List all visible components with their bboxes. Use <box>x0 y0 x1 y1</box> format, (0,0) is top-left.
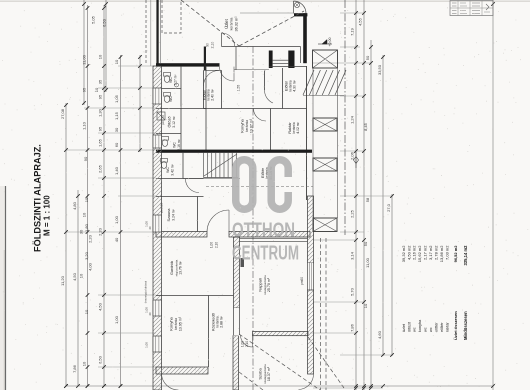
svg-text:1,00: 1,00 <box>114 315 119 324</box>
corridor wall <box>205 66 207 151</box>
svg-text:üzlet: üzlet <box>402 323 406 332</box>
svg-text:2,20: 2,20 <box>88 234 93 243</box>
dimension chain line right B <box>363 0 365 390</box>
hatched wall szauna-gardrob right <box>229 232 310 238</box>
svg-text:95: 95 <box>82 87 87 92</box>
svg-text:4,60: 4,60 <box>377 330 382 339</box>
uzlet left outer wall <box>156 0 158 64</box>
svg-text:3.12 m²: 3.12 m² <box>172 115 176 127</box>
terrace dashed lines <box>320 238 322 390</box>
sink 1 <box>175 83 179 87</box>
svg-text:konyha: konyha <box>418 319 422 332</box>
internal stair treads <box>203 153 205 178</box>
svg-text:6,50: 6,50 <box>98 355 103 364</box>
uzlet interior partition stub <box>235 47 237 71</box>
left page fold edge <box>5 186 7 390</box>
svg-text:1,10: 1,10 <box>82 121 87 130</box>
svg-text:előtér: előtér <box>435 322 439 332</box>
svg-text:1,05: 1,05 <box>114 94 119 103</box>
svg-text:1,00: 1,00 <box>114 215 119 224</box>
chimney shaft box B4 <box>313 218 337 232</box>
dimension chain line right C <box>370 40 372 388</box>
dimension chain line top H <box>105 0 107 92</box>
svg-text:27,08: 27,08 <box>60 108 65 119</box>
right wall bottom door arc <box>299 374 314 390</box>
svg-text:4,50: 4,50 <box>72 272 77 281</box>
uzlet right outer wall thick <box>303 13 307 63</box>
svg-text:10: 10 <box>114 59 119 64</box>
left outer wall hatched lower <box>153 66 162 390</box>
dashed centerline vertical <box>252 46 254 390</box>
svg-text:3.24 m²: 3.24 m² <box>172 208 176 220</box>
svg-text:40: 40 <box>148 312 152 316</box>
svg-text:2,20: 2,20 <box>98 227 103 236</box>
svg-text:1,00: 1,00 <box>145 307 149 313</box>
dimension chain line right A <box>355 0 357 390</box>
elotir430 top edge <box>269 66 307 68</box>
svg-text:50: 50 <box>363 241 368 246</box>
svg-text:25.70 m²: 25.70 m² <box>267 277 271 292</box>
konyha door arc <box>264 90 273 103</box>
svg-text:95: 95 <box>98 94 103 99</box>
elotir 430 wall <box>282 68 284 109</box>
svg-text:4,50 m2: 4,50 m2 <box>406 245 411 260</box>
svg-text:CENTRUM: CENTRUM <box>232 243 299 265</box>
svg-text:wc: wc <box>429 327 433 332</box>
svg-text:wc: wc <box>424 327 428 332</box>
svg-text:40: 40 <box>148 226 152 230</box>
svg-text:1,00: 1,00 <box>145 342 149 348</box>
hatched wall szauna-gardrob left <box>156 232 207 238</box>
survey marker diamond <box>354 157 359 164</box>
svg-text:WC: WC <box>169 96 173 102</box>
left wall window 3 <box>153 215 162 232</box>
dimension chain line top G <box>83 0 85 105</box>
svg-text:7,19: 7,19 <box>350 27 355 36</box>
svg-text:3.42 m²: 3.42 m² <box>171 163 175 175</box>
wc toilet 1 <box>164 76 169 83</box>
svg-text:18.37 m²: 18.37 m² <box>267 366 271 381</box>
wc342 walls <box>182 153 184 179</box>
nappali szoba wall hatched <box>253 332 309 336</box>
szoba dashed diagonals <box>239 334 320 390</box>
svg-text:2,10: 2,10 <box>245 341 249 347</box>
svg-text:13,86 m2: 13,86 m2 <box>439 245 444 262</box>
svg-text:WC: WC <box>166 167 170 173</box>
fireplace <box>241 258 245 267</box>
svg-text:2,17 m2: 2,17 m2 <box>423 245 428 260</box>
uzlet counter wall <box>222 46 301 48</box>
entry steps diagonal treads <box>303 70 314 95</box>
dimension chain line left E <box>120 55 122 386</box>
dimension chain line left C <box>87 5 89 386</box>
svg-text:öltöző: öltöző <box>407 322 411 332</box>
svg-text:Gardrób: Gardrób <box>170 261 174 275</box>
hall dashed line <box>206 186 313 188</box>
elotir240 top edge line <box>204 69 222 71</box>
stair diagonal cut <box>204 154 237 176</box>
svg-text:2,16 m2: 2,16 m2 <box>412 245 417 260</box>
konyha kozlekedo wall <box>208 296 210 368</box>
nappali top wall double line <box>240 238 308 240</box>
svg-text:kerámia: kerámia <box>245 120 249 132</box>
uzlet top right wall thick <box>294 13 307 16</box>
left extension lines <box>118 65 156 67</box>
dimension chain line left B <box>77 190 79 386</box>
dimension chain line left A <box>65 103 67 386</box>
svg-text:pm60: pm60 <box>300 277 304 285</box>
svg-text:8,45: 8,45 <box>363 122 368 131</box>
door arc uzlet to konyha <box>220 67 235 81</box>
svg-text:7,03 m2: 7,03 m2 <box>444 245 449 260</box>
svg-text:Konyha: Konyha <box>240 118 245 132</box>
svg-text:2,10: 2,10 <box>211 42 215 49</box>
uzlet counter door leaf and arc <box>221 33 223 47</box>
svg-text:Szoba: Szoba <box>258 368 263 380</box>
svg-text:36.32 m²: 36.32 m² <box>235 16 239 32</box>
svg-text:2,65: 2,65 <box>98 164 103 173</box>
stamp tiny text marks <box>452 2 457 4</box>
watermark letter O <box>236 160 253 210</box>
canopy dashed rect top left <box>162 0 181 33</box>
svg-text:11,00: 11,00 <box>82 54 87 64</box>
svg-text:4,55: 4,55 <box>358 17 363 26</box>
svg-text:3,20: 3,20 <box>84 251 89 260</box>
building right wall upper thin <box>306 66 308 200</box>
chimney shaft left rail <box>312 68 314 218</box>
pillar block B <box>288 51 294 69</box>
svg-text:7,86: 7,86 <box>72 364 77 373</box>
window between pillars <box>273 59 289 61</box>
gardrob konyha wall <box>156 295 234 297</box>
chimney shaft box B2 <box>313 118 337 131</box>
uzlet bottom wall thick <box>156 63 220 66</box>
right outer wall hatched <box>308 196 314 263</box>
svg-text:58: 58 <box>365 197 370 202</box>
kozlekedo szoba wall hatched lower <box>233 336 239 390</box>
svg-text:10: 10 <box>363 303 368 308</box>
svg-text:13.76 m²: 13.76 m² <box>179 260 183 274</box>
konyha right wall <box>264 71 266 91</box>
svg-text:WC: WC <box>169 77 173 83</box>
svg-text:40: 40 <box>114 237 119 242</box>
svg-text:10: 10 <box>82 361 87 366</box>
elotir 240 walls <box>203 71 205 109</box>
right page dimension line <box>492 0 494 390</box>
right dimension ticks <box>354 11 358 15</box>
svg-text:2.88 m²: 2.88 m² <box>220 315 224 327</box>
uzlet entrance door arc <box>294 1 307 14</box>
middle main wall thick <box>156 150 312 153</box>
svg-text:35: 35 <box>98 79 103 84</box>
boundary dash-dot line <box>344 0 346 235</box>
dashed boundary near wall <box>145 0 147 64</box>
svg-text:4,80: 4,80 <box>72 201 77 210</box>
right outer wall hatched lower <box>308 290 314 374</box>
left wall window 2 <box>153 135 162 148</box>
right extension lines <box>340 12 364 14</box>
svg-text:15,62 m2: 15,62 m2 <box>417 245 422 262</box>
svg-text:1,24: 1,24 <box>350 115 355 124</box>
wc toilet 2 <box>164 96 169 103</box>
door arc vestibule <box>186 179 200 193</box>
svg-text:3,14: 3,14 <box>350 251 355 260</box>
svg-text:2,25: 2,25 <box>350 209 355 218</box>
svg-text:60: 60 <box>114 142 119 147</box>
stamp arrow mark <box>486 4 489 10</box>
svg-text:1,30: 1,30 <box>98 108 103 117</box>
svg-text:27,0: 27,0 <box>386 203 391 212</box>
svg-text:OTTHON: OTTHON <box>232 220 295 242</box>
bottom line ticks <box>64 384 68 388</box>
wc toilet 4 <box>161 162 166 169</box>
svg-text:raktár: raktár <box>445 322 449 332</box>
svg-text:11,20: 11,20 <box>60 275 65 285</box>
stair lower edge line <box>183 178 240 180</box>
svg-text:4.02 m²: 4.02 m² <box>296 121 300 133</box>
stamp extra marks <box>460 2 466 4</box>
opening sill <box>234 69 269 71</box>
svg-text:2,06: 2,06 <box>350 151 355 160</box>
level mark +0,00 flag <box>322 40 327 45</box>
chimney shaft right rail <box>337 68 339 218</box>
svg-text:10: 10 <box>84 309 89 314</box>
svg-text:2,78 m2: 2,78 m2 <box>434 245 439 260</box>
svg-text:13.95 m²: 13.95 m² <box>179 316 183 331</box>
wc toilet 3 <box>162 140 167 147</box>
outside dashed diagonal <box>308 337 344 388</box>
svg-text:Nappali: Nappali <box>258 278 263 292</box>
svg-text:7,86: 7,86 <box>350 323 355 332</box>
svg-text:2,10: 2,10 <box>215 242 219 248</box>
top paper edge <box>0 0 530 2</box>
svg-text:Üzlet összesen: Üzlet összesen <box>453 311 458 340</box>
svg-text:M = 1 : 100: M = 1 : 100 <box>43 195 52 236</box>
door wall stub thick <box>204 47 206 71</box>
door gap arc hall to gardrob <box>207 210 229 232</box>
bottom left door arc <box>162 374 179 390</box>
svg-text:10: 10 <box>82 212 87 217</box>
svg-text:5,05: 5,05 <box>91 15 96 24</box>
svg-text:FÖLDSZINTI ALAPRAJZ.: FÖLDSZINTI ALAPRAJZ. <box>33 144 43 252</box>
svg-text:Konyha: Konyha <box>169 316 174 330</box>
svg-text:30: 30 <box>79 229 84 234</box>
svg-text:50: 50 <box>365 55 370 60</box>
svg-text:5,70: 5,70 <box>350 287 355 296</box>
svg-text:4,50: 4,50 <box>98 302 103 311</box>
svg-text:39,32 m2: 39,32 m2 <box>401 245 406 262</box>
raktar zone walls <box>204 108 307 110</box>
stamp box top right <box>450 1 493 16</box>
dimension chain line right E <box>391 194 393 356</box>
bottom dimension line <box>66 385 493 387</box>
svg-text:övezetgrja lakásai: övezetgrja lakásai <box>144 280 148 303</box>
svg-text:1,00: 1,00 <box>145 221 149 227</box>
svg-text:2.40 m²: 2.40 m² <box>211 88 215 100</box>
sidewalk line above uzlet <box>240 12 293 14</box>
konyha bottom wall hatched <box>156 367 208 374</box>
counter right closure <box>300 47 302 64</box>
left page fold shadow <box>0 186 5 390</box>
svg-text:11,00: 11,00 <box>365 257 370 267</box>
dimension chain line right D <box>382 55 384 356</box>
kozlekedo wall upper part <box>234 308 240 336</box>
svg-text:33,50: 33,50 <box>377 64 382 75</box>
left dimension ticks <box>64 103 68 107</box>
right wall window pm60 <box>307 263 314 290</box>
svg-text:kerámia: kerámia <box>174 318 178 330</box>
svg-text:1,65: 1,65 <box>98 138 103 147</box>
gardrob nappali wall hatched <box>234 237 240 308</box>
svg-text:1,55: 1,55 <box>237 85 241 92</box>
svg-text:95: 95 <box>98 126 103 131</box>
chimney shaft box B1 <box>313 50 338 68</box>
svg-text:Üzlet: Üzlet <box>224 18 229 28</box>
small room zone partitions <box>180 66 182 150</box>
svg-text:Öltöző: Öltöző <box>168 117 172 128</box>
svg-text:6,50: 6,50 <box>102 18 107 27</box>
left wall window 5 <box>153 336 162 352</box>
dimension chain line left F <box>139 55 141 152</box>
pillar block A <box>269 51 273 69</box>
svg-text:2,27 m²: 2,27 m² <box>174 75 178 86</box>
kozlekedo szoba door arc <box>241 335 253 347</box>
svg-text:90: 90 <box>83 156 88 161</box>
svg-text:+0,00: +0,00 <box>328 37 332 46</box>
svg-text:4.30 m²: 4.30 m² <box>293 79 297 91</box>
raktar door arc <box>254 109 267 122</box>
svg-text:10: 10 <box>84 197 89 202</box>
svg-text:335,14 m2: 335,14 m2 <box>463 245 468 266</box>
svg-text:2.16 m²: 2.16 m² <box>177 138 181 150</box>
svg-text:1,00: 1,00 <box>241 341 245 347</box>
szauna walls <box>156 196 204 198</box>
svg-text:kerámia: kerámia <box>230 18 234 31</box>
svg-text:előtér: előtér <box>440 322 444 332</box>
benchmark symbol <box>294 2 299 7</box>
svg-text:90,52 m2: 90,52 m2 <box>453 245 458 263</box>
roof projection dashed over uzlet <box>181 0 239 46</box>
svg-text:13.07 m²: 13.07 m² <box>250 118 254 133</box>
svg-text:90: 90 <box>206 43 210 47</box>
elotir 240 door arc <box>204 71 220 87</box>
dimension chain line left D <box>103 5 105 386</box>
svg-text:1,80: 1,80 <box>84 223 89 232</box>
chimney shaft box B3 <box>313 158 337 171</box>
left wall window 1 <box>153 88 162 104</box>
svg-text:1,40: 1,40 <box>114 166 119 175</box>
svg-text:4,00: 4,00 <box>88 262 93 271</box>
shower oltozo <box>157 112 165 120</box>
svg-text:3,17 m2: 3,17 m2 <box>428 245 433 260</box>
svg-text:wc: wc <box>413 327 417 332</box>
svg-text:WC: WC <box>173 142 177 148</box>
svg-text:Szauna: Szauna <box>167 208 171 222</box>
left wall window 4 <box>153 300 162 316</box>
svg-text:10: 10 <box>98 54 103 59</box>
svg-text:1,00: 1,00 <box>210 242 214 248</box>
svg-text:1,15: 1,15 <box>114 111 119 120</box>
svg-text:30: 30 <box>114 127 119 132</box>
svg-text:10: 10 <box>79 273 84 278</box>
watermark letter C <box>271 160 288 210</box>
